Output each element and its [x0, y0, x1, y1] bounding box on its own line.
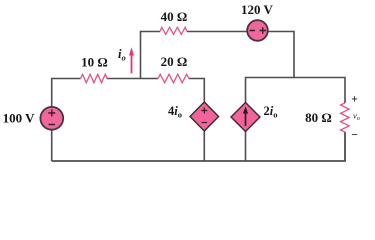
resistor R 10ohm — [81, 74, 108, 82]
svg-text:100 V: 100 V — [3, 110, 36, 125]
svg-text:10 Ω: 10 Ω — [81, 55, 108, 70]
svg-text:120 V: 120 V — [241, 2, 274, 17]
svg-text:vo: vo — [353, 111, 360, 123]
resistor R 40ohm — [160, 27, 187, 34]
wire: 2io diamond bottom stub — [245, 132, 247, 162]
svg-text:+: + — [351, 94, 358, 106]
voltage source 100V (circle) — [40, 107, 63, 130]
voltage source 120V (circle) — [247, 20, 268, 41]
dependent current source 2io (diamond) — [231, 103, 260, 132]
wire: 4io diamond bottom stub — [203, 131, 205, 161]
wire: horizontal rail y=77.5 with drops to 2io source and 80ohm — [246, 78, 346, 104]
svg-text:80 Ω: 80 Ω — [305, 110, 332, 125]
dependent voltage source 4io (diamond) — [190, 102, 219, 131]
svg-text:2io: 2io — [264, 104, 278, 120]
svg-text:io: io — [118, 47, 126, 63]
wire: left branch vertical + middle rail — [52, 79, 205, 162]
svg-text:20 Ω: 20 Ω — [161, 54, 188, 69]
svg-text:−: − — [351, 130, 358, 142]
resistor R 20ohm — [158, 74, 189, 82]
current arrow io (pink, up) — [131, 54, 133, 73]
svg-text:40 Ω: 40 Ω — [161, 9, 188, 24]
wire: bottom rail — [52, 132, 345, 161]
svg-text:4io: 4io — [168, 104, 182, 120]
wire: top branch from middle node up through 40ohm and 120V — [141, 32, 295, 79]
resistor R 80ohm (vertical) — [341, 103, 350, 132]
